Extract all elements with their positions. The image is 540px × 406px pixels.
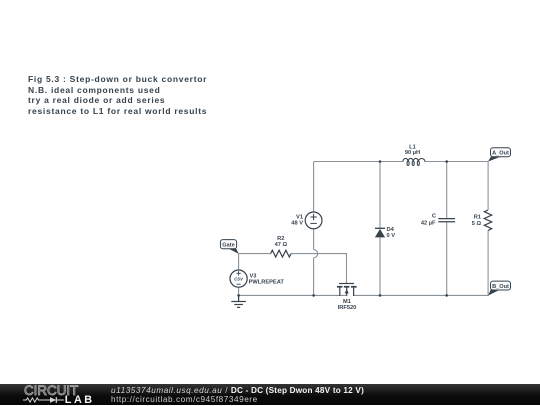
transistor M1 (NMOS, gate up) [339, 284, 354, 296]
inductor L1 [403, 158, 425, 165]
wire V1 minus terminal down to bottom rail [313, 229, 315, 296]
junction C top at top rail [445, 160, 448, 163]
svg-text:5 Ω: 5 Ω [472, 221, 482, 227]
junction ground node at V3 minus [237, 294, 240, 297]
junction D4 cathode at top rail [379, 160, 382, 163]
wire R2 right to M1 gate [291, 254, 347, 284]
wire bottom rail right segment (M1 drain to B_Out corner) [354, 294, 489, 296]
circuitlab logo wordmark LAB [65, 394, 95, 406]
title note text block [28, 74, 207, 118]
wire top rail V1+ to L1 left [314, 161, 403, 163]
svg-text:B_Out: B_Out [492, 284, 509, 290]
svg-text:0 V: 0 V [387, 233, 396, 239]
footer bar [0, 384, 540, 405]
wire diode D4 column [379, 162, 381, 296]
svg-text:A_Out: A_Out [492, 151, 509, 157]
voltage source V1 [305, 212, 322, 229]
resistor R2 [271, 250, 291, 257]
svg-text:C: C [432, 214, 436, 220]
wire bottom rail left segment (ground to M1 source) [239, 294, 347, 296]
wire Gate node to R2 left [239, 253, 271, 255]
svg-text:R1: R1 [474, 214, 481, 220]
node B_Out flag label [488, 281, 511, 296]
resistor R1 [484, 210, 491, 231]
voltage source V3 (PWL source) [230, 270, 247, 287]
wire Gate node down to V3 plus [238, 254, 240, 270]
node A_Out flag label [488, 148, 511, 162]
svg-text:47 Ω: 47 Ω [275, 242, 288, 248]
svg-text:CSV: CSV [234, 276, 244, 281]
capacitor C [438, 219, 455, 222]
svg-text:IRF520: IRF520 [338, 305, 357, 311]
circuitlab logo schematic glyph (resistor and diode) [23, 396, 67, 404]
junction C bottom at bottom rail [445, 294, 448, 297]
svg-text:Gate: Gate [222, 243, 234, 249]
junction V1 minus at bottom rail [312, 294, 315, 297]
ground [231, 295, 246, 307]
wire R1 column [487, 162, 489, 296]
svg-text:PWLREPEAT: PWLREPEAT [249, 279, 285, 285]
wire top rail L1 right to A_Out corner [425, 161, 488, 163]
svg-text:42 µF: 42 µF [421, 220, 436, 226]
wire capacitor C column [446, 162, 448, 296]
wire hop arc over gate wire [314, 250, 318, 258]
circuitlab logo wordmark CIRCUIT [24, 383, 78, 398]
node Gate flag label [220, 240, 238, 254]
diode D4 [375, 228, 385, 237]
wire V1 plus terminal up to top rail [313, 162, 315, 213]
svg-text:90 µH: 90 µH [405, 150, 420, 156]
footer caption text [111, 387, 364, 405]
svg-text:48 V: 48 V [291, 220, 303, 226]
junction D4 anode at bottom rail [379, 294, 382, 297]
wire V3 minus down to bottom rail [238, 287, 240, 296]
